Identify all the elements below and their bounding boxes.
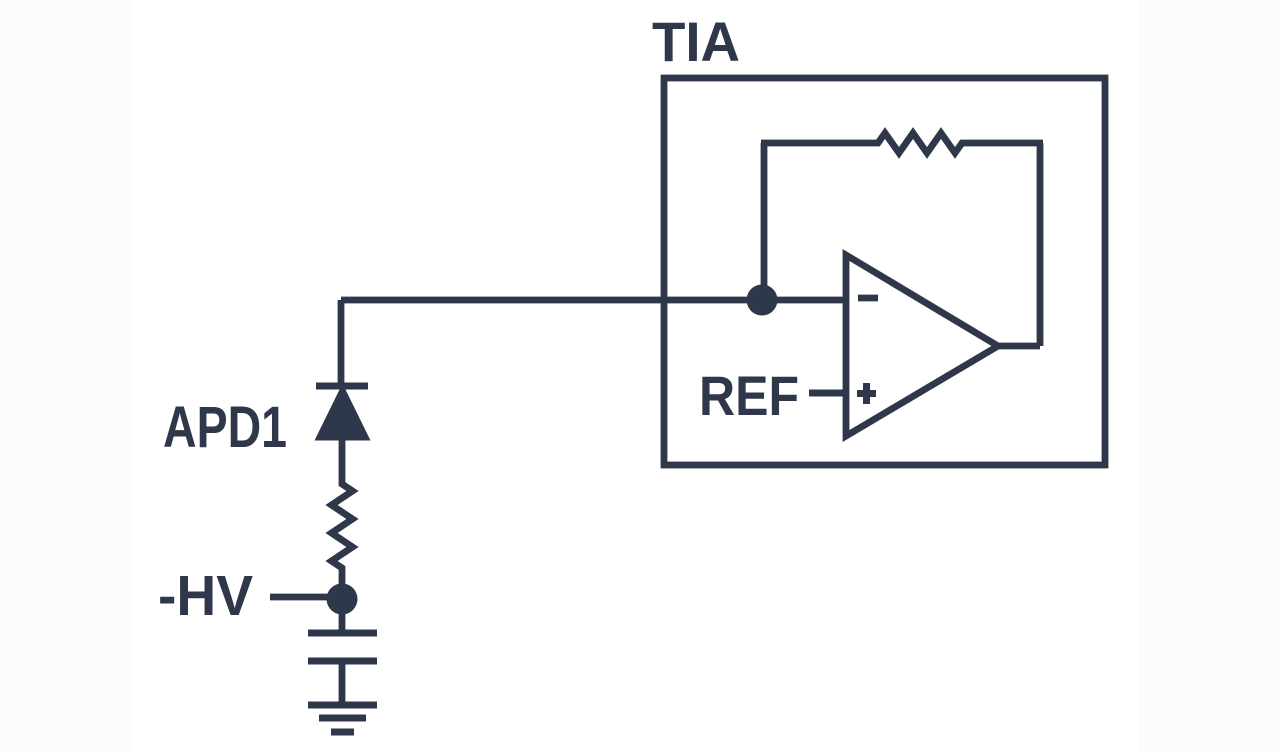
op-amp U1 triangle <box>846 255 998 436</box>
feedback resistor Rf with top feedback wire <box>761 133 1043 153</box>
ground symbol <box>308 705 377 732</box>
op-amp plus input symbol <box>857 383 876 404</box>
wire: node to capacitor <box>339 599 346 633</box>
wire: -HV stub <box>270 594 342 601</box>
wire: capacitor to ground <box>339 661 346 705</box>
op-amp box TIA <box>664 78 1105 465</box>
op-amp minus input symbol <box>858 295 878 302</box>
wire: input node to op-amp inverting input <box>341 297 846 304</box>
wire: vertical from input corner down to diode <box>338 300 345 384</box>
diode APD1 cathode bar <box>316 383 368 390</box>
feedback wire: right vertical down to output <box>1037 143 1044 346</box>
wire: REF stub to non-inverting input <box>809 390 846 397</box>
node junction dot (inverting input) <box>747 285 778 316</box>
capacitor C bottom plate <box>308 658 377 665</box>
resistor R (bias) with connecting wires <box>332 436 353 599</box>
svg-text:REF: REF <box>699 364 799 427</box>
feedback wire: left vertical from node up <box>761 143 768 300</box>
wire: op-amp output <box>996 343 1040 350</box>
white schematic background panel <box>133 0 1138 752</box>
svg-text:-HV: -HV <box>158 564 253 628</box>
capacitor C top plate <box>308 630 377 637</box>
diode APD1 triangle <box>315 384 371 441</box>
svg-text:TIA: TIA <box>652 10 740 73</box>
svg-text:APD1: APD1 <box>163 395 287 460</box>
node junction dot (-HV) <box>327 584 358 615</box>
